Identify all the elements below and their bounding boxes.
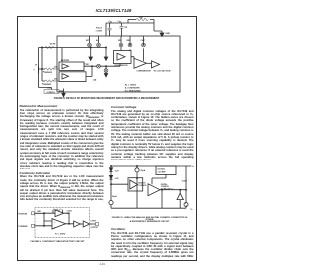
- svg-text:RUNKNOWN: RUNKNOWN: [43, 72, 52, 74]
- svg-text:6.2V: 6.2V: [115, 170, 120, 172]
- svg-text:(32): (32): [48, 88, 51, 90]
- svg-text:CINT: CINT: [118, 21, 122, 23]
- svg-text:COMMON: COMMON: [138, 185, 147, 187]
- svg-text:(5V BELOW V+): (5V BELOW V+): [161, 188, 174, 190]
- svg-text:FO = 160Hz: FO = 160Hz: [55, 233, 65, 235]
- svg-text:20μA: 20μA: [112, 195, 117, 198]
- svg-text:V−: V−: [191, 209, 194, 211]
- svg-text:REF: REF: [67, 213, 72, 215]
- svg-text:R1 = 100kΩ: R1 = 100kΩ: [125, 84, 137, 86]
- svg-text:+: +: [54, 222, 56, 224]
- svg-text:TO LCD SECTION: TO LCD SECTION: [154, 71, 171, 73]
- svg-text:PUNKNOWN: PUNKNOWN: [19, 213, 28, 215]
- svg-text:1MΩ: 1MΩ: [37, 211, 41, 213]
- svg-text:20μA: 20μA: [141, 169, 146, 172]
- svg-text:5.6kΩ: 5.6kΩ: [182, 180, 188, 182]
- svg-text:COMMON: COMMON: [46, 92, 55, 94]
- svg-text:CONT: CONT: [91, 220, 97, 222]
- svg-text:M = MEASURED: M = MEASURED: [125, 90, 141, 93]
- svg-text:RSTANDARD: RSTANDARD: [42, 83, 51, 86]
- svg-text:GND: GND: [166, 33, 171, 35]
- svg-text:CAZ: CAZ: [109, 21, 112, 24]
- svg-text:CREF: CREF: [85, 64, 89, 66]
- svg-text:IINT: IINT: [125, 26, 128, 28]
- svg-text:A = UNKNOWN: A = UNKNOWN: [125, 87, 140, 90]
- svg-text:BUFFER: BUFFER: [61, 60, 70, 62]
- svg-text:COMPARATOR: COMPARATOR: [137, 70, 152, 73]
- svg-text:PSTANDARD: PSTANDARD: [19, 225, 28, 228]
- svg-text:6.8V: 6.8V: [115, 178, 120, 180]
- svg-text:VS: VS: [35, 64, 37, 66]
- svg-text:R10-A: R10-A: [96, 26, 102, 29]
- svg-text:CMP: CMP: [141, 40, 146, 42]
- svg-text:INTEGRATOR: INTEGRATOR: [115, 64, 129, 67]
- svg-text:(31): (31): [54, 67, 58, 69]
- svg-text:+: +: [33, 68, 35, 71]
- svg-text:OUTPUT: OUTPUT: [91, 227, 100, 229]
- svg-text:1 OHM: 1 OHM: [96, 30, 103, 32]
- svg-text:RINT: RINT: [139, 17, 143, 19]
- svg-text:V+: V+: [192, 166, 195, 168]
- svg-text:(30): (30): [54, 79, 58, 81]
- svg-text:1M FS: 1M FS: [50, 44, 57, 46]
- svg-text:REF: REF: [127, 40, 132, 42]
- svg-text:ICL8069: ICL8069: [158, 169, 165, 171]
- svg-text:1.2V REF: 1.2V REF: [158, 172, 167, 174]
- svg-text:(34): (34): [93, 79, 96, 82]
- svg-text:AZ: AZ: [96, 39, 99, 42]
